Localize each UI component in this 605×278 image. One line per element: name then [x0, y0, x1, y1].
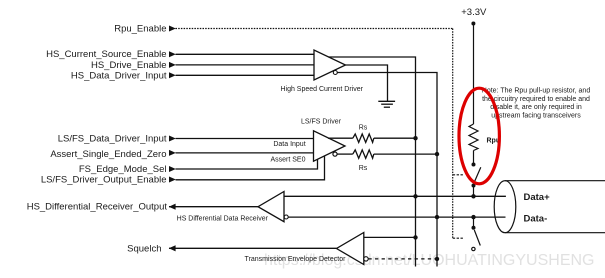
- resistor Rpu: [469, 124, 478, 151]
- svg-text:HS Differential Data Receiver: HS Differential Data Receiver: [177, 215, 269, 222]
- wire LS/FS_Driver_Output_Enable: [176, 156, 325, 180]
- svg-text:LS/FS_Driver_Output_Enable: LS/FS_Driver_Output_Enable: [41, 175, 167, 186]
- node LS/FS_Driver_Output_Enable arrow: [169, 177, 176, 183]
- wire cable top: [505, 180, 605, 182]
- node +3.3V terminal dot: [471, 22, 475, 26]
- svg-text:Note: The Rpu pull-up resisto: Note: The Rpu pull-up resistor, and: [482, 88, 591, 95]
- ground: [378, 101, 395, 107]
- node U4 inverting bubble: [364, 257, 368, 261]
- svg-text:Squelch: Squelch: [127, 243, 161, 254]
- wire cable bottom: [505, 232, 605, 234]
- svg-text:+3.3V: +3.3V: [461, 7, 487, 18]
- node HS_Differential_Receiver_Output arrow: [169, 204, 176, 210]
- wire Rpu_Enable dashed stub to switch SW2: [453, 237, 464, 239]
- wire Data+ line: [284, 195, 506, 197]
- resistor Rs upper: [353, 134, 374, 142]
- svg-text:Data-: Data-: [524, 214, 548, 225]
- wire Rpu to switch SW1: [473, 151, 475, 165]
- svg-text:Data+: Data+: [524, 192, 551, 203]
- switch SW2 blade: [474, 230, 480, 246]
- wire Assert_Single_Ended_Zero: [176, 152, 314, 154]
- svg-text:HS_Data_Driver_Input: HS_Data_Driver_Input: [71, 70, 167, 81]
- svg-text:HS_Differential_Receiver_Outpu: HS_Differential_Receiver_Output: [27, 202, 168, 213]
- cable ellipse: [494, 181, 516, 233]
- node junction U4 dashed input / D- bus: [435, 257, 439, 261]
- wire U2 top tap: [328, 137, 353, 139]
- op-amp U4 Transmission Envelope Detector: [337, 233, 364, 265]
- node HS_Drive_Enable arrow: [169, 62, 176, 68]
- node junction Data- / lower switch: [471, 215, 475, 219]
- node SW1 top terminal: [472, 163, 476, 167]
- node junction D- bus / Rs lower: [435, 152, 439, 156]
- op-amp U2 LS/FS Driver: [314, 131, 346, 161]
- wire U1 bubble output to D- bus: [337, 73, 437, 267]
- node SW2 open terminal: [472, 247, 475, 250]
- op-amp U1 High Speed Current Driver: [314, 50, 346, 80]
- node U2 inverting bubble: [333, 152, 337, 156]
- svg-text:Data Input: Data Input: [273, 141, 305, 148]
- svg-text:upstream facing transceivers: upstream facing transceivers: [491, 113, 581, 120]
- svg-text:HS_Drive_Enable: HS_Drive_Enable: [91, 60, 167, 71]
- svg-text:Assert SE0: Assert SE0: [270, 156, 305, 163]
- wire HS_Differential_Receiver_Output: [169, 206, 258, 208]
- node HS_Current_Source_Enable arrow: [169, 51, 176, 57]
- svg-text:Rs: Rs: [359, 165, 368, 172]
- wire FS_Edge_Mode_Sel: [176, 160, 318, 170]
- wire Data- to switch SW2: [473, 217, 475, 228]
- node HS_Data_Driver_Input arrow: [169, 72, 176, 78]
- node FS_Edge_Mode_Sel arrow: [169, 166, 176, 172]
- node LS/FS_Data_Driver_Input arrow: [169, 136, 176, 142]
- svg-text:LS/FS_Data_Driver_Input: LS/FS_Data_Driver_Input: [58, 134, 167, 145]
- svg-text:High Speed Current Driver: High Speed Current Driver: [280, 86, 363, 93]
- wire U2 bubble to Rs lower: [337, 153, 353, 155]
- wire SW1 to Data+: [473, 186, 475, 197]
- wire Rpu_Enable dashed stub to switch SW1: [453, 174, 464, 176]
- svg-text:HS_Current_Source_Enable: HS_Current_Source_Enable: [46, 49, 166, 60]
- node Rpu_Enable arrow: [169, 26, 176, 32]
- wire Rpu_Enable dashed horizontal: [176, 28, 453, 30]
- svg-text:Rpu_Enable: Rpu_Enable: [114, 24, 166, 35]
- svg-text:Rs: Rs: [359, 125, 368, 132]
- node junction Data- / D- bus: [435, 215, 439, 219]
- wire Rs lower to D- bus: [374, 153, 437, 155]
- wire +3.3V to Rpu: [473, 24, 475, 125]
- node junction U4 top input / D+ bus: [413, 235, 417, 239]
- resistor Rs lower: [353, 150, 374, 158]
- switch SW1 blade: [475, 167, 481, 181]
- svg-text:LS/FS Driver: LS/FS Driver: [301, 119, 342, 126]
- red annotation ellipse around Rpu: [459, 88, 499, 184]
- svg-text:Transmission Envelope Detector: Transmission Envelope Detector: [245, 256, 347, 263]
- node junction D+ bus / Rs upper: [413, 136, 417, 140]
- node Squelch arrow: [169, 245, 176, 251]
- svg-text:disable it, are only required: disable it, are only required in: [490, 104, 582, 111]
- node U3 inverting bubble: [284, 215, 288, 219]
- wire Data- line: [288, 216, 505, 218]
- wire U1 apex output to ground: [346, 65, 388, 101]
- svg-text:the circuitry required to enab: the circuitry required to enable and: [482, 96, 590, 103]
- node SW2 top terminal: [472, 226, 476, 230]
- node U1 inverting bubble: [333, 71, 337, 75]
- op-amp U3 HS Differential Data Receiver: [258, 192, 284, 222]
- wire Rs upper to D+ bus: [374, 137, 416, 139]
- svg-text:Assert_Single_Ended_Zero: Assert_Single_Ended_Zero: [50, 149, 166, 160]
- wire U4 top input to D+ bus: [364, 236, 416, 238]
- wire HS_Drive_Enable: [176, 64, 315, 66]
- wire Rpu_Enable dashed vertical: [452, 29, 454, 239]
- svg-text:FS_Edge_Mode_Sel: FS_Edge_Mode_Sel: [79, 164, 167, 175]
- wire HS_Current_Source_Enable: [176, 53, 315, 55]
- node Assert_Single_Ended_Zero arrow: [169, 150, 176, 156]
- node junction Data+ / Rpu switch: [471, 194, 475, 198]
- node SW1 bottom terminal: [472, 184, 476, 188]
- wire LS/FS_Data_Driver_Input: [176, 138, 314, 140]
- wire Squelch: [169, 247, 337, 249]
- wire U1 top tap to D+ bus: [329, 57, 416, 267]
- wire HS_Data_Driver_Input: [176, 74, 315, 76]
- node junction Data+ / D+ bus: [413, 194, 417, 198]
- wire U4 dashed input to D- bus: [368, 258, 437, 260]
